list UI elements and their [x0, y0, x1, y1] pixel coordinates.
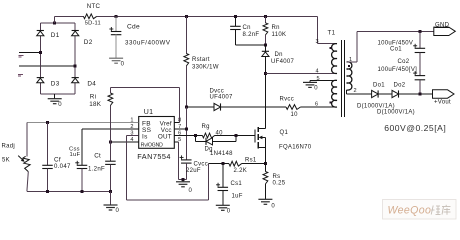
- wire bottom rail: [27, 190, 111, 192]
- capacitor Co2: [378, 59, 426, 94]
- thermistor NTC: [83, 3, 100, 26]
- svg-text:1N4148: 1N4148: [210, 151, 233, 157]
- svg-text:Cvcc: Cvcc: [194, 162, 209, 168]
- pin number 2: [130, 124, 133, 130]
- svg-text:Co2: Co2: [398, 59, 410, 65]
- wire FB line: [27, 122, 139, 124]
- svg-text:10: 10: [291, 112, 299, 118]
- diode Do1: [372, 83, 386, 98]
- svg-text:Radj: Radj: [2, 144, 16, 150]
- wire Vcc pin7 stub: [174, 128, 186, 130]
- svg-text:+Vout: +Vout: [434, 100, 451, 106]
- resistor Rs1: [229, 158, 265, 175]
- svg-text:WeeQoo: WeeQoo: [388, 205, 432, 217]
- node Cs1 tap junction: [221, 162, 224, 165]
- wire FB down to Radj: [26, 123, 28, 157]
- node pin4 junction: [109, 141, 112, 144]
- svg-text:0: 0: [227, 208, 231, 214]
- svg-text:UF4007: UF4007: [210, 95, 234, 101]
- wire Do1 to Do2: [378, 93, 392, 95]
- capacitor Co1: [378, 31, 426, 75]
- svg-text:0: 0: [314, 86, 318, 92]
- svg-text:0.25: 0.25: [273, 180, 286, 186]
- node AC2 junction: [74, 65, 77, 68]
- svg-text:22uF: 22uF: [186, 168, 201, 174]
- svg-text:18K: 18K: [89, 101, 102, 108]
- node Co1 top junction: [418, 30, 421, 33]
- connector +Vout: [433, 90, 455, 106]
- svg-text:Ri: Ri: [90, 93, 97, 100]
- pin 5 label: [317, 76, 320, 82]
- ground Cs1: [216, 205, 231, 214]
- transformer T1 label: [328, 30, 336, 37]
- wire OUT line: [174, 135, 195, 137]
- AC terminal mark 2: [18, 75, 23, 77]
- winding secondary (pins 1-2): [347, 62, 352, 94]
- transformer core: [341, 40, 344, 117]
- diode Do2: [392, 83, 406, 98]
- wire Vcc column: [185, 107, 187, 155]
- svg-text:Cs1: Cs1: [231, 181, 243, 187]
- pin number 4: [130, 137, 133, 143]
- label output rating: [384, 123, 446, 133]
- node Cvcc ground junction: [182, 178, 185, 181]
- winding primary (pins 3-4): [330, 44, 337, 74]
- svg-text:Cde: Cde: [127, 23, 140, 30]
- wire AC input line 2: [19, 65, 75, 67]
- wire Dvcc anode: [186, 106, 214, 108]
- svg-text:FQA16N70: FQA16N70: [279, 145, 312, 151]
- wire pin5 to ground: [174, 142, 186, 179]
- winding aux (pins 5-6): [330, 80, 337, 107]
- wire gate line: [236, 135, 255, 137]
- wire Ri to Vref: [110, 87, 179, 122]
- label diode rating 1: [357, 104, 395, 110]
- resistor Rg: [196, 124, 237, 138]
- wire source column: [264, 148, 266, 172]
- wire GND rail: [357, 30, 434, 32]
- svg-text:6: 6: [315, 101, 318, 107]
- svg-text:D3: D3: [51, 81, 60, 88]
- svg-text:Do1: Do1: [373, 83, 385, 89]
- pin number 6: [178, 131, 181, 137]
- svg-text:T1: T1: [328, 30, 336, 37]
- svg-text:Do2: Do2: [394, 83, 406, 89]
- wire Rvcc to pin6: [301, 106, 338, 108]
- svg-text:Dvcc: Dvcc: [210, 89, 225, 95]
- node Vcc rail junction: [185, 106, 188, 109]
- svg-text:1uF: 1uF: [70, 152, 81, 158]
- svg-text:600V@0.25[A]: 600V@0.25[A]: [384, 123, 446, 133]
- resistor Rn: [263, 16, 286, 45]
- svg-text:D2: D2: [84, 39, 93, 46]
- potentiometer Radj: [2, 144, 31, 192]
- svg-text:40: 40: [216, 130, 224, 136]
- diode D4: [72, 78, 97, 88]
- AC terminal mark 1: [19, 56, 24, 58]
- svg-text:Rv/OGND: Rv/OGND: [141, 142, 163, 148]
- ground bridge: [48, 94, 63, 108]
- svg-text:U1: U1: [144, 109, 154, 116]
- svg-text:330uF/400WV: 330uF/400WV: [125, 40, 171, 47]
- node snubber bottom junction: [264, 44, 267, 47]
- svg-text:2: 2: [354, 88, 357, 94]
- ground Ct: [104, 191, 120, 214]
- diode Dn: [262, 45, 295, 73]
- svg-text:3: 3: [316, 39, 319, 45]
- svg-text:0: 0: [58, 102, 62, 108]
- wire Vref stub: [174, 122, 179, 124]
- pin number 1: [130, 117, 133, 123]
- wire Do2 to Vout: [399, 93, 433, 95]
- resistor Rvcc: [280, 97, 301, 119]
- svg-text:Cn: Cn: [243, 25, 251, 31]
- resistor Rstart: [184, 16, 219, 107]
- resistor Ri: [89, 87, 113, 142]
- wire HV rail right: [97, 15, 318, 17]
- capacitor Cn: [230, 16, 265, 45]
- pin 3 label: [316, 39, 319, 45]
- pin label FB: [142, 120, 151, 127]
- node Vcc pin7 junction: [185, 128, 188, 131]
- node Cn junction: [234, 15, 237, 18]
- svg-text:100uF/450[V]: 100uF/450[V]: [378, 67, 418, 73]
- node drain-pin4 junction: [264, 72, 267, 75]
- svg-text:Q1: Q1: [280, 130, 289, 136]
- wire bridge left column: [39, 23, 41, 94]
- svg-text:330K/1W: 330K/1W: [192, 65, 219, 71]
- diode Dg: [196, 136, 237, 158]
- pin number 3: [130, 131, 133, 137]
- wire bridge right column: [74, 23, 76, 94]
- connector GND: [434, 23, 456, 36]
- svg-text:5: 5: [317, 76, 320, 82]
- node Rstart top junction: [185, 15, 188, 18]
- ground Cde: [109, 58, 125, 67]
- node FB-Cf junction: [46, 121, 49, 124]
- pin 1 label: [349, 57, 352, 63]
- svg-text:Dn: Dn: [275, 52, 283, 58]
- svg-text:D4: D4: [87, 81, 96, 88]
- svg-text:D(1000V/1A): D(1000V/1A): [377, 110, 415, 116]
- wire Is loop: [126, 136, 208, 201]
- svg-text:2.2K: 2.2K: [234, 168, 248, 174]
- transistor Q1: [255, 127, 312, 150]
- svg-text:Rs: Rs: [273, 174, 281, 180]
- svg-text:0: 0: [271, 203, 275, 209]
- svg-text:FAN7554: FAN7554: [137, 152, 171, 161]
- capacitor Css: [69, 129, 87, 191]
- node Css bottom junction: [81, 190, 84, 193]
- node Rg left junction: [194, 134, 197, 137]
- svg-text:Rn: Rn: [272, 25, 280, 31]
- svg-text:110K: 110K: [272, 32, 287, 38]
- svg-text:Ct: Ct: [94, 152, 101, 159]
- wire pin1 up: [347, 31, 357, 62]
- svg-text:OUT: OUT: [158, 134, 172, 141]
- ground Rs: [258, 199, 275, 209]
- pin label OUT: [158, 134, 172, 141]
- pin label Vref: [160, 120, 172, 127]
- svg-text:1.2nF: 1.2nF: [88, 166, 105, 173]
- svg-text:Rvcc: Rvcc: [280, 97, 295, 103]
- wire HV rail left: [55, 15, 84, 17]
- svg-text:1uF: 1uF: [232, 194, 243, 200]
- capacitor Cde: [109, 16, 171, 58]
- capacitor Ct: [88, 142, 116, 191]
- node Cf bottom junction: [46, 190, 49, 193]
- svg-text:0.047: 0.047: [54, 163, 71, 170]
- wire stub bridge to HV rail: [54, 16, 56, 23]
- wire SS line: [82, 128, 139, 130]
- capacitor Cvcc: [180, 155, 208, 180]
- node rail end junction: [109, 190, 112, 193]
- wire bridge top rail: [40, 22, 75, 24]
- svg-text:Rs1: Rs1: [245, 158, 257, 164]
- pin number 7: [178, 124, 181, 130]
- svg-text:8.2nF: 8.2nF: [243, 32, 260, 38]
- node Cde junction: [115, 15, 118, 18]
- svg-text:0: 0: [189, 188, 193, 194]
- wire AC input line 1: [19, 52, 40, 54]
- svg-text:5D-11: 5D-11: [85, 21, 101, 27]
- svg-text:UF4007: UF4007: [271, 59, 295, 65]
- wire Dvcc to Rvcc: [221, 106, 287, 108]
- pin 6 label: [315, 101, 318, 107]
- wire drain line: [264, 73, 266, 128]
- pin label Is: [142, 134, 148, 141]
- svg-text:Is: Is: [142, 134, 148, 141]
- capacitor Cf: [42, 123, 71, 192]
- diode D2: [72, 31, 93, 47]
- svg-text:NTC: NTC: [87, 3, 101, 10]
- pin 4 label: [316, 69, 319, 75]
- pin label SS: [142, 127, 152, 134]
- svg-text:D1: D1: [51, 32, 60, 39]
- wire pin4 line: [110, 141, 138, 143]
- diode D1: [37, 31, 60, 40]
- node AC1 junction: [39, 51, 42, 54]
- IC U1 FAN7554: [137, 109, 174, 161]
- svg-text:Rg: Rg: [202, 124, 210, 130]
- watermark: [383, 200, 457, 220]
- wire rail drop to pin3: [318, 16, 338, 43]
- capacitor Cs1: [216, 164, 243, 206]
- pin number 8: [178, 117, 181, 123]
- svg-text:0: 0: [121, 61, 125, 67]
- pin label Vcc: [161, 127, 172, 134]
- svg-text:0: 0: [116, 208, 120, 214]
- svg-text:5K: 5K: [2, 158, 10, 164]
- diode D3: [37, 78, 60, 88]
- pin 2 label: [354, 88, 357, 94]
- wire pin2 to Do1: [347, 93, 372, 95]
- ground pin5: [303, 80, 318, 91]
- node Rg right junction: [235, 134, 238, 137]
- node Rn junction: [264, 15, 267, 18]
- pin number 5: [178, 137, 181, 143]
- resistor Rs: [263, 172, 286, 200]
- node Co2 bottom junction: [418, 93, 421, 96]
- svg-text:Co1: Co1: [390, 47, 402, 53]
- node bridge + junction: [53, 22, 56, 25]
- diode Dvcc: [210, 89, 234, 111]
- label diode rating 2: [377, 110, 415, 116]
- wire pin4 to drain: [265, 72, 337, 74]
- wire bridge bottom rail: [40, 93, 75, 95]
- ground Cvcc: [176, 179, 193, 194]
- svg-text:Rstart: Rstart: [192, 57, 210, 63]
- svg-text:4: 4: [316, 69, 319, 75]
- node Rs1-source junction: [264, 162, 267, 165]
- pin label RvOGND: [141, 142, 163, 148]
- wire Is to Rs1: [209, 163, 229, 165]
- wire pin5 to ground: [310, 79, 337, 81]
